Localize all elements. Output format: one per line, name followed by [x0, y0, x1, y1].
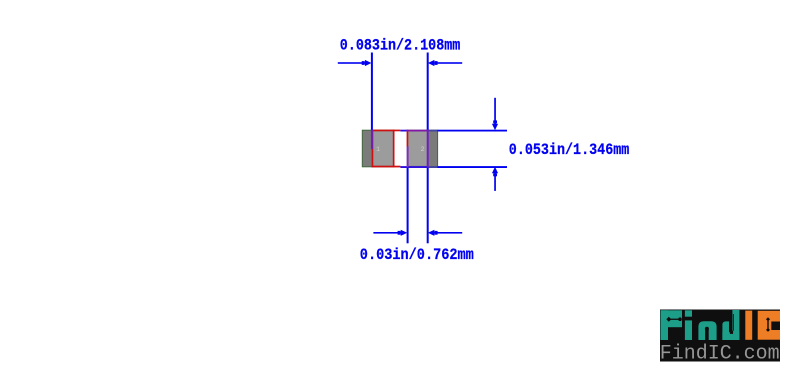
- logo letter C (orange with trace): [758, 311, 780, 340]
- svg-text:0.03in/0.762mm: 0.03in/0.762mm: [360, 246, 474, 264]
- pad 2 terminal overlap (light gray): [408, 131, 429, 166]
- pad 2 copper (dark gray with green outline): [408, 130, 438, 167]
- right dimension line upper segment with down arrow: [494, 98, 496, 124]
- logo letter n (teal with via): [698, 321, 716, 340]
- svg-text:0.083in/2.108mm: 0.083in/2.108mm: [340, 37, 461, 55]
- logo background: [660, 310, 780, 362]
- pad width extension line bottom (blue/violet segments): [400, 166, 428, 168]
- bottom dimension line left segment with arrow: [373, 232, 401, 234]
- pad 1 copper (dark gray with green outline): [362, 130, 393, 167]
- extension line left (blue, purple over red body edge): [371, 53, 373, 130]
- extension line right (blue, purple across body): [427, 53, 429, 130]
- pad width extension line top (blue/purple segments): [400, 130, 406, 132]
- svg-text:1: 1: [376, 146, 380, 153]
- body outline left edge (red): [372, 130, 374, 168]
- extension line inner terminal edge (purple then blue): [407, 146, 409, 167]
- svg-text:0.053in/1.346mm: 0.053in/1.346mm: [509, 141, 630, 159]
- body outline bottom edge (red): [372, 166, 401, 168]
- body outline top edge (red): [372, 130, 401, 132]
- logo letter I (orange): [745, 311, 752, 340]
- logo letter F (teal with circuit trace): [661, 310, 683, 340]
- terminal inner edge left (red): [393, 130, 395, 168]
- pad 1 terminal overlap (light gray): [372, 131, 393, 166]
- logo letter i (teal): [685, 310, 692, 340]
- top dimension line left segment with arrow: [338, 62, 365, 64]
- logo letter d (teal with trace and via): [722, 310, 739, 340]
- bottom dimension line right segment with arrow: [434, 232, 462, 234]
- svg-text:FindIC.com: FindIC.com: [660, 343, 780, 366]
- svg-text:2: 2: [421, 146, 425, 153]
- top dimension line right segment with arrow: [434, 62, 462, 64]
- right dimension line lower segment with up arrow: [494, 173, 496, 191]
- terminal inner edge right (red): [407, 130, 409, 147]
